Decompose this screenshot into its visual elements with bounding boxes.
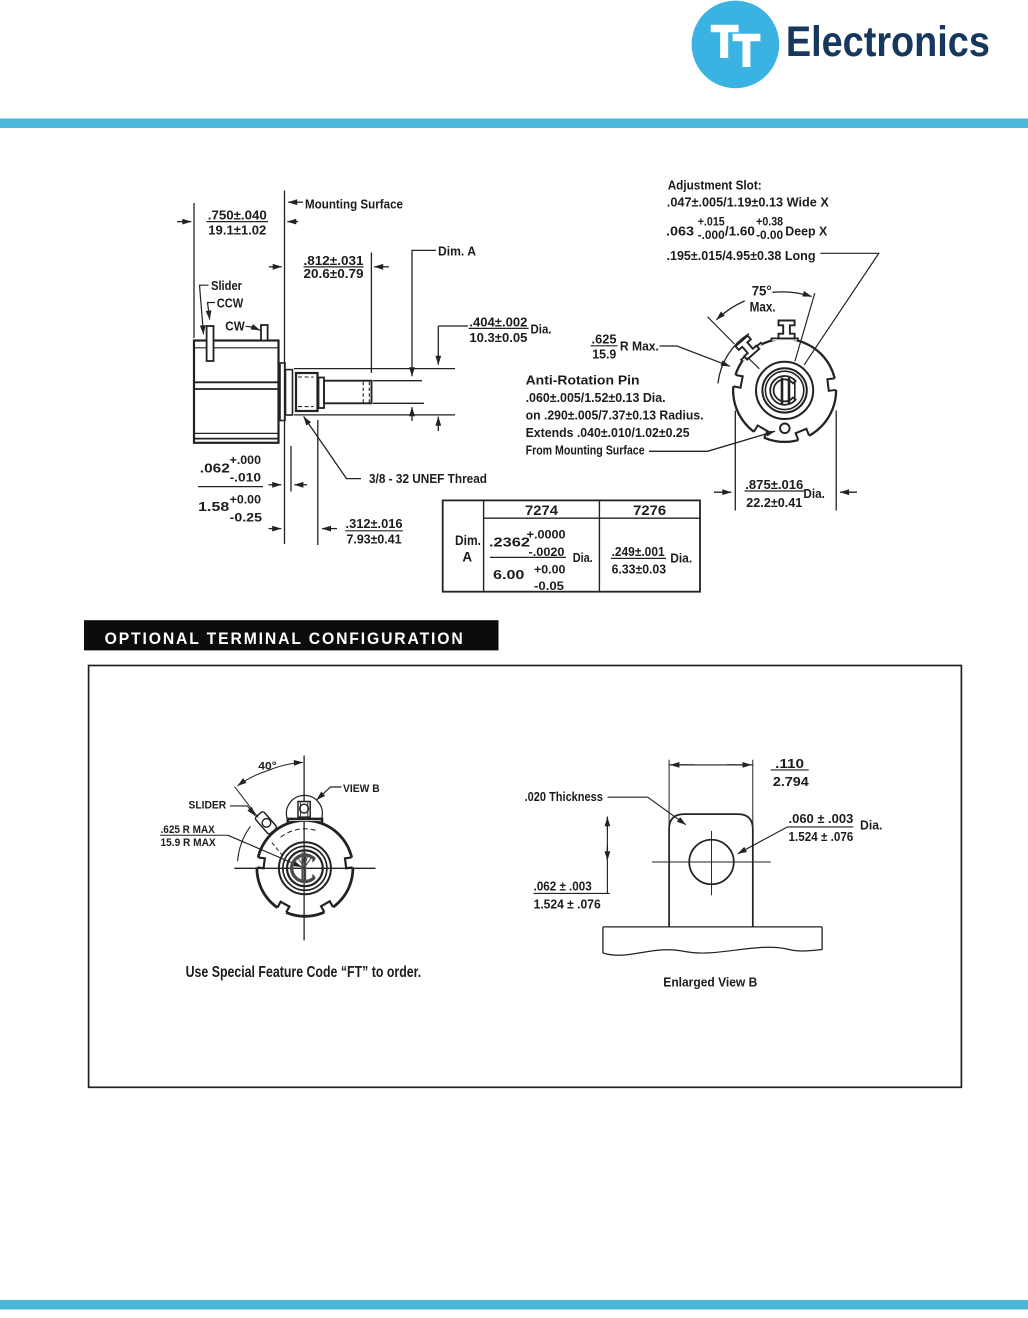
svg-text:Electronics: Electronics (786, 18, 990, 66)
mounting plate 2 (locating boss) (286, 370, 293, 415)
enlarged view B width dimension .110/2.794 (669, 764, 753, 766)
extension line body rear (x=194) (193, 203, 195, 338)
svg-text:6.00: 6.00 (493, 567, 524, 582)
threaded bushing (296, 373, 318, 411)
rear view slot chord line (794, 380, 796, 401)
FT view top platform (thick) (287, 813, 322, 823)
rear view housing notch bottom-right (796, 429, 811, 444)
rear view shaft circle (765, 371, 803, 409)
75 degree boundary line left (inner segment) (748, 357, 760, 368)
FT view dashed tab axis segment (272, 843, 284, 858)
svg-text:19.1±1.02: 19.1±1.02 (208, 223, 266, 238)
svg-text:Deep X: Deep X (785, 223, 827, 238)
svg-text:.312±.016: .312±.016 (346, 516, 403, 531)
FT view R max arc (238, 826, 251, 861)
svg-text:.625 R MAX: .625 R MAX (161, 824, 216, 836)
svg-text:3/8 - 32 UNEF Thread: 3/8 - 32 UNEF Thread (369, 471, 487, 486)
bottom blue rule bar (0, 1300, 1028, 1310)
rear view angled flat platform (736, 337, 762, 361)
bushing step ring (319, 378, 325, 409)
anti-rotation pin circle (780, 424, 790, 434)
mounting plate 1 (280, 363, 285, 421)
FT view terminal hole (300, 804, 309, 813)
potentiometer body (side view) (194, 341, 279, 443)
dimension .812 +-.031 / 20.6 +-0.79 (269, 266, 282, 268)
svg-text:/1.60: /1.60 (725, 223, 755, 238)
svg-text:Mounting Surface: Mounting Surface (305, 197, 403, 212)
svg-text:Anti-Rotation Pin: Anti-Rotation Pin (526, 373, 640, 388)
svg-text:10.3±0.05: 10.3±0.05 (469, 330, 527, 345)
svg-text:40°: 40° (258, 761, 276, 773)
svg-text:CCW: CCW (217, 296, 244, 311)
svg-text:Dim.: Dim. (455, 533, 481, 548)
FT view slot bars (gray) (301, 853, 303, 884)
svg-text:+.0000: +.0000 (527, 530, 566, 542)
FT view fan spokes (298, 857, 311, 866)
svg-text:+0.38: +0.38 (756, 217, 784, 229)
svg-text:SLIDER: SLIDER (189, 799, 227, 811)
terminal pin CW (261, 325, 268, 341)
svg-text:1.58: 1.58 (198, 499, 229, 514)
rear view housing notch bottom-left (752, 425, 768, 440)
svg-text:.195±.015/4.95±0.38 Long: .195±.015/4.95±0.38 Long (667, 248, 816, 263)
svg-text:From Mounting Surface: From Mounting Surface (526, 442, 645, 457)
FT view housing notch bottom-left (275, 902, 289, 916)
svg-text:R Max.: R Max. (620, 339, 659, 354)
svg-text:6.33±0.03: 6.33±0.03 (612, 562, 667, 577)
svg-text:Slider: Slider (211, 278, 242, 293)
svg-text:Adjustment Slot:: Adjustment Slot: (668, 178, 762, 193)
svg-text:+0.00: +0.00 (534, 565, 565, 577)
label 3/8 - 32 UNEF Thread with leader (304, 417, 361, 479)
rear view outer housing circle (733, 339, 836, 442)
terminal pin CCW (tall, enters body) (207, 326, 214, 361)
table header underline (484, 517, 700, 519)
FT view terminal lug front (298, 802, 310, 818)
enlarged view B terminal lug outline (669, 814, 753, 927)
rear view bushing ring outer (756, 362, 813, 419)
svg-text:CW: CW (225, 319, 245, 334)
top blue rule bar (0, 119, 1028, 129)
svg-text:7.93±0.41: 7.93±0.41 (347, 532, 402, 547)
dimension .404 +-.002 / 10.3 +-0.05 Dia. (438, 325, 468, 327)
svg-text:-0.05: -0.05 (534, 581, 565, 593)
svg-text:.063: .063 (666, 223, 694, 238)
svg-text:.2362: .2362 (489, 535, 530, 550)
svg-text:.249±.001: .249±.001 (612, 544, 665, 559)
75 degree arc with arrows (716, 301, 744, 320)
svg-text:20.6±0.79: 20.6±0.79 (304, 266, 364, 281)
40 degree boundary line (235, 787, 259, 818)
R Max leader arrow (660, 346, 731, 366)
svg-text:2.794: 2.794 (773, 775, 809, 789)
rear view terminal tab top (I-beam) (779, 321, 795, 339)
svg-text:Extends .040±.010/1.02±0.25: Extends .040±.010/1.02±0.25 (526, 425, 690, 440)
svg-text:.110: .110 (775, 757, 804, 771)
logo letter T2 (733, 34, 761, 67)
label Mounting Surface with arrow (288, 201, 303, 203)
extension line shaft end (x=371.4) (370, 253, 372, 374)
rear view terminal tab angled (I-beam) (736, 336, 760, 360)
svg-text:7276: 7276 (633, 503, 667, 518)
svg-text:7274: 7274 (525, 503, 559, 518)
svg-text:Use Special Feature Code “FT”: Use Special Feature Code “FT” to order. (186, 964, 422, 981)
svg-text:Max.: Max. (750, 300, 776, 315)
svg-text:.062 ± .003: .062 ± .003 (534, 880, 592, 894)
svg-text:.750±.040: .750±.040 (208, 208, 267, 223)
FT view slider tab (rotated) (254, 811, 277, 835)
dimension .750 +-.040 / 19.1 +-1.02 (207, 221, 269, 223)
svg-text:Dia.: Dia. (860, 819, 882, 833)
svg-text:1.524 ± .076: 1.524 ± .076 (534, 898, 601, 912)
svg-text:.625: .625 (592, 332, 617, 347)
extension lines shaft diameter (373, 380, 422, 382)
FT view dome (View B terminal housing) (286, 795, 322, 819)
svg-text:A: A (462, 550, 472, 565)
rear view top flat platform (771, 332, 798, 341)
adjustment slot leader line (804, 253, 879, 364)
body lower band lines (195, 432, 278, 434)
svg-text:Dia.: Dia. (803, 486, 825, 501)
svg-text:+.015: +.015 (698, 217, 726, 229)
svg-text:Enlarged View B: Enlarged View B (663, 975, 757, 990)
svg-text:VIEW B: VIEW B (343, 783, 380, 795)
extension lines bushing boss diameter (294, 368, 455, 370)
svg-text:75°: 75° (752, 284, 772, 299)
svg-text:-.010: -.010 (230, 473, 261, 485)
svg-text:.060 ± .003: .060 ± .003 (789, 812, 854, 826)
section header bar OPTIONAL TERMINAL CONFIGURATION (84, 620, 499, 650)
svg-text:-0.00: -0.00 (756, 230, 783, 242)
anti-rotation pin leader with arrow (649, 431, 775, 451)
svg-text:-0.25: -0.25 (230, 513, 263, 525)
rear view housing notch left (730, 374, 743, 388)
FT view slotted C-ring (gray) (292, 855, 315, 881)
svg-text:Dim. A: Dim. A (438, 244, 477, 259)
body middle band lines (194, 381, 279, 383)
table column dividers (483, 500, 485, 591)
svg-text:15.9 R MAX: 15.9 R MAX (161, 837, 217, 849)
shaft end dashed lines (362, 382, 364, 403)
optional configuration outline box (89, 666, 962, 1088)
FT view outer housing circle (257, 820, 353, 916)
rear view slotted shaft C-ring (double arc) (770, 376, 795, 405)
FT view housing notch left (253, 857, 265, 868)
40 degree arc with arrows (238, 771, 269, 786)
table frame (443, 500, 700, 591)
svg-text:-.000: -.000 (698, 230, 725, 242)
dimension .875 +-.016 / 22.2 +-0.41 Dia. (734, 411, 736, 511)
shaft (324, 381, 372, 404)
logo circle (TT Electronics mark) (692, 1, 780, 89)
dimension .312 +-.016 / 7.93 +-0.41 (269, 528, 282, 530)
svg-text:+0.00: +0.00 (230, 495, 261, 507)
FT view shaft rings (279, 842, 331, 894)
rear view adjustment slot bars (781, 378, 784, 404)
75 degree boundary line right (795, 293, 815, 361)
logo letter T1 (711, 25, 739, 58)
FT view dashed rotation arc (281, 829, 316, 837)
75 degree boundary line left (outer segment) (708, 317, 735, 344)
FT view housing notch right (345, 857, 357, 868)
FT view vertical centerline (303, 756, 305, 941)
svg-text:22.2±0.41: 22.2±0.41 (746, 495, 802, 510)
svg-text:Dia.: Dia. (531, 322, 552, 337)
svg-text:OPTIONAL TERMINAL CONFIGURATIO: OPTIONAL TERMINAL CONFIGURATION (105, 629, 465, 648)
body top cap line (195, 347, 278, 349)
svg-text:.047±.005/1.19±0.13 Wide X: .047±.005/1.19±0.13 Wide X (667, 195, 829, 210)
svg-text:.404±.002: .404±.002 (469, 315, 527, 330)
svg-text:.020 Thickness: .020 Thickness (525, 790, 603, 804)
svg-text:+.000: +.000 (230, 455, 261, 467)
bushing thread dashed lines (298, 376, 314, 378)
mounting surface extension line (x=284.5) (284, 191, 286, 545)
svg-text:.875±.016: .875±.016 (745, 477, 803, 492)
extension line bushing end (x=317.8) (317, 420, 319, 545)
svg-text:on .290±.005/7.37±0.13 Radius.: on .290±.005/7.37±0.13 Radius. (526, 408, 704, 423)
.062 dimension arrows and extension line (290, 446, 292, 492)
rear view bushing ring inner (762, 368, 806, 412)
svg-text:1.524 ± .076: 1.524 ± .076 (789, 830, 854, 844)
svg-text:Dia.: Dia. (670, 551, 692, 566)
enlarged view B base strip with break line (603, 927, 822, 953)
FT view housing notch bottom-right (321, 901, 335, 916)
FT view horizontal centerline (234, 867, 375, 869)
enlarged view B height dimension (606, 817, 608, 894)
enlarged view B centerlines (652, 861, 771, 863)
svg-text:Dia.: Dia. (573, 550, 593, 565)
rear view housing notch right (827, 378, 840, 391)
svg-text:15.9: 15.9 (592, 347, 616, 362)
svg-text:.060±.005/1.52±0.13 Dia.: .060±.005/1.52±0.13 Dia. (526, 390, 666, 405)
svg-text:.062: .062 (200, 461, 230, 476)
enlarged view B hole (689, 840, 734, 885)
Dim A lower arrow (411, 407, 413, 421)
R Max arc (.625 radius) (718, 334, 749, 384)
